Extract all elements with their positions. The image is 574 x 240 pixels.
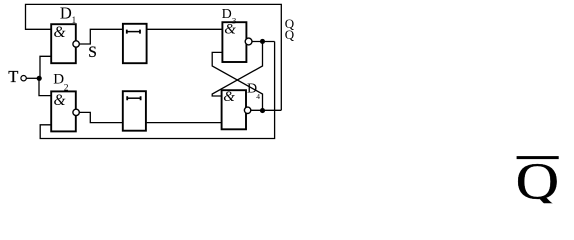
node: T junction dot [37, 76, 42, 81]
gate D2 body [51, 91, 76, 131]
wire: D4 output (Qbar net) to right riser, top line, down-left to D1 top input [26, 4, 282, 110]
node: Qbar junction dot [260, 108, 265, 113]
wire: D1 bottom input from T junction [40, 56, 51, 78]
delay symbol bottom box [127, 97, 140, 99]
wire: Q net cross-coupling diagonal to D4 top input [212, 42, 262, 97]
label big Q with overline [517, 156, 559, 159]
wire: top delay output to D3 top input [146, 28, 222, 30]
bubble: D4 output inversion [244, 107, 250, 113]
wire: D2 output to bottom delay input [79, 112, 122, 122]
svg-text:1: 1 [72, 15, 77, 25]
node: Q junction dot [260, 39, 265, 44]
svg-text:Q: Q [516, 153, 560, 207]
wire: Qbar net cross-coupling diagonal to D3 bottom input [212, 52, 262, 110]
delay element box bottom [123, 91, 146, 131]
delay symbol top box [127, 31, 140, 33]
bubble: D2 output inversion [73, 109, 79, 115]
svg-text:D: D [60, 4, 72, 23]
svg-text:D: D [53, 72, 64, 88]
wire: T terminal to junction [27, 77, 40, 79]
wire: D1 output S to top delay input [79, 29, 123, 44]
gate D4 body [222, 90, 246, 129]
svg-text:&: & [54, 92, 66, 109]
gate D1 body [51, 24, 76, 63]
wire: D3 output (Q net) [252, 41, 275, 43]
bubble: D3 output inversion [245, 38, 252, 45]
wire: bottom delay output to D4 bottom input [147, 122, 222, 124]
svg-text:&: & [223, 89, 235, 105]
svg-text:3: 3 [232, 16, 236, 26]
terminal: T input circle [21, 76, 26, 81]
svg-text:Q: Q [285, 27, 295, 42]
wire: T junction down to D2 top input [39, 78, 51, 95]
svg-text:4: 4 [256, 92, 260, 101]
delay element box top [123, 24, 147, 63]
bubble: D1 output inversion [73, 41, 79, 47]
gate D3 body [222, 22, 246, 62]
svg-text:&: & [54, 24, 66, 41]
svg-text:S: S [88, 44, 97, 61]
svg-text:2: 2 [64, 84, 69, 94]
svg-text:T: T [8, 67, 18, 86]
svg-text:D: D [222, 7, 232, 22]
wire: Q net down right side, bottom feedback to D2 bottom input [40, 42, 274, 139]
